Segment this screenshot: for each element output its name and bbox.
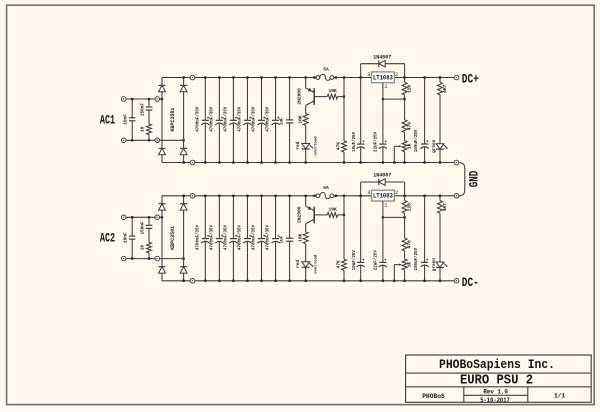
svg-text:100uF/25V: 100uF/25V bbox=[414, 247, 419, 270]
svg-text:4K7: 4K7 bbox=[442, 84, 448, 93]
svg-text:47K: 47K bbox=[335, 260, 341, 269]
potentiometer P2 1K bbox=[404, 251, 406, 259]
wire 47K to bottom bus 1 bbox=[343, 152, 345, 163]
bridge rectifier B2 KBPC3501 left leg diodes bbox=[161, 196, 163, 204]
svg-text:5A: 5A bbox=[323, 185, 329, 191]
svg-text:1uF: 1uF bbox=[280, 235, 284, 243]
resistor R470-2 470 bbox=[404, 217, 406, 238]
svg-text:2N2906: 2N2906 bbox=[297, 206, 303, 223]
wire bottom bus 1 bbox=[162, 162, 190, 164]
svg-text:4700uF/35V: 4700uF/35V bbox=[238, 224, 243, 250]
wire AC2 top bbox=[126, 216, 155, 218]
node AC input terminals AC1 bbox=[121, 97, 126, 102]
svg-text:red: red bbox=[296, 260, 301, 268]
capacitor C21 4700uF/35V bbox=[218, 78, 220, 121]
wire base 1 bbox=[314, 96, 327, 98]
LED D-green-2 green bbox=[436, 262, 444, 267]
wire 4K7 to LED 2 bbox=[439, 213, 441, 262]
junction dots top bus 2 bbox=[182, 195, 184, 197]
svg-text:4K7: 4K7 bbox=[442, 203, 448, 212]
wire pin1 2 bbox=[382, 201, 384, 217]
wire green LED to bottom bus 2 bbox=[439, 268, 441, 281]
capacitor Cadj-1 22uF/25V bbox=[382, 99, 384, 144]
fuse F1 5A bbox=[313, 76, 315, 78]
capacitor C10n-2 10nF bbox=[131, 217, 133, 236]
svg-text:10uF/25V: 10uF/25V bbox=[352, 250, 357, 271]
svg-text:GND: GND bbox=[467, 170, 481, 187]
svg-text:AC1: AC1 bbox=[100, 113, 116, 127]
node bridge input terminals 2 bbox=[155, 215, 160, 220]
svg-text:4700uF/35V: 4700uF/35V bbox=[266, 106, 271, 132]
svg-text:4700uF/35V: 4700uF/35V bbox=[252, 106, 257, 132]
wire 4K7 to LED 1 bbox=[439, 95, 441, 144]
node bridge input terminals 1 bbox=[155, 97, 160, 102]
svg-text:10K: 10K bbox=[328, 206, 337, 212]
svg-text:22uF/25V: 22uF/25V bbox=[373, 131, 378, 152]
wire top bus 1 bbox=[162, 77, 190, 79]
svg-text:1K: 1K bbox=[406, 143, 412, 149]
svg-text:2: 2 bbox=[395, 190, 398, 196]
svg-text:10nF: 10nF bbox=[124, 114, 129, 125]
svg-text:10: 10 bbox=[140, 245, 145, 251]
resistor R10-2 10 bbox=[147, 242, 152, 253]
capacitor C51 4700uF/35V bbox=[261, 78, 263, 121]
svg-text:4700uF/35V: 4700uF/35V bbox=[209, 106, 214, 132]
wire base 2 bbox=[314, 214, 327, 216]
capacitor C150n-2 150nF bbox=[148, 217, 150, 225]
svg-text:1: 1 bbox=[384, 84, 387, 90]
diode D2 1N4007 bbox=[361, 181, 379, 183]
capacitor C10n-1 10nF bbox=[131, 99, 133, 118]
svg-text:120: 120 bbox=[406, 203, 412, 212]
svg-text:1N4007: 1N4007 bbox=[373, 173, 391, 179]
wire collector to LED 2 bbox=[305, 244, 307, 262]
capacitor C31 4700uF/35V bbox=[232, 78, 234, 121]
svg-text:DC-: DC- bbox=[462, 276, 479, 290]
wire LED to bottom bus 1 bbox=[305, 149, 307, 163]
wire pin1 1 bbox=[382, 83, 384, 99]
node GND ports and wire bbox=[454, 160, 459, 165]
resistor R470-1 470 bbox=[404, 99, 406, 120]
node bridge + output port 1 bbox=[190, 75, 195, 80]
svg-text:10: 10 bbox=[140, 126, 145, 132]
svg-text:3: 3 bbox=[367, 72, 370, 78]
fuse F2 5A bbox=[313, 195, 315, 197]
capacitor Cout-2 100uF/25V bbox=[423, 195, 425, 197]
svg-text:5A: 5A bbox=[323, 67, 329, 73]
svg-text:1: 1 bbox=[384, 202, 387, 208]
wire to bridge bottom 2 bbox=[160, 258, 184, 260]
svg-text:DC+: DC+ bbox=[462, 73, 479, 87]
svg-text:KBPC3501: KBPC3501 bbox=[170, 108, 176, 132]
svg-text:4700uF/35V: 4700uF/35V bbox=[252, 224, 257, 250]
svg-text:150nF: 150nF bbox=[140, 103, 145, 117]
junction dots bottom bus 2 bbox=[182, 280, 184, 282]
wire AC1 bottom bbox=[126, 139, 155, 141]
svg-text:4700uF/35V: 4700uF/35V bbox=[195, 224, 200, 250]
svg-text:overload: overload bbox=[314, 136, 319, 156]
svg-text:2N2906: 2N2906 bbox=[297, 88, 303, 105]
title block frame bbox=[406, 355, 592, 402]
wire collector to LED 1 bbox=[305, 126, 307, 144]
svg-text:4700uF/35V: 4700uF/35V bbox=[209, 224, 214, 250]
transistor Q2 2N2906 bbox=[305, 196, 307, 207]
wire to bridge bottom 1 bbox=[160, 139, 184, 141]
node DC- output port bbox=[454, 279, 459, 284]
wire top bus 2 bbox=[162, 195, 190, 197]
svg-text:AC2: AC2 bbox=[100, 232, 115, 246]
svg-text:5-10-2017: 5-10-2017 bbox=[480, 397, 510, 404]
capacitor C22 4700uF/35V bbox=[218, 196, 220, 239]
op-amp U1 LT1083 regulator bbox=[372, 72, 395, 83]
node bridge + output port 2 bbox=[190, 194, 195, 199]
capacitor C150n-1 150nF bbox=[148, 99, 150, 107]
svg-text:PHOBoSapiens Inc.: PHOBoSapiens Inc. bbox=[439, 357, 555, 372]
svg-text:1uF: 1uF bbox=[280, 117, 284, 125]
svg-text:KBPC3501: KBPC3501 bbox=[170, 226, 176, 250]
capacitor C62 4700uF/35V bbox=[275, 196, 277, 239]
wire AC2 bottom bbox=[126, 258, 155, 260]
resistor Rc-1 10K bbox=[303, 114, 308, 126]
resistor R4K7-1 4K7 bbox=[439, 76, 441, 78]
svg-text:overload: overload bbox=[314, 254, 319, 274]
resistor R47K-2 47K bbox=[342, 259, 347, 270]
svg-text:EURO PSU 2: EURO PSU 2 bbox=[460, 374, 533, 389]
wire AC1 top bbox=[126, 98, 155, 100]
LED D-green-1 green bbox=[436, 144, 444, 149]
svg-text:1K: 1K bbox=[406, 262, 412, 268]
node bridge - output port 2 bbox=[190, 279, 195, 284]
svg-text:10nF: 10nF bbox=[124, 232, 129, 243]
svg-text:4700uF/35V: 4700uF/35V bbox=[238, 106, 243, 132]
capacitor C1u-2 1uF bbox=[289, 196, 291, 238]
capacitor C1u-1 1uF bbox=[289, 78, 291, 120]
node AC input terminals AC2 bbox=[121, 215, 126, 220]
wire bottom bus 2 bbox=[162, 280, 190, 282]
LED D-red-2 red overload bbox=[302, 262, 310, 267]
diode D1 1N4007 bbox=[361, 63, 379, 65]
svg-text:470: 470 bbox=[406, 122, 412, 131]
resistor R10-1 10 bbox=[147, 124, 152, 135]
svg-text:LT1083: LT1083 bbox=[373, 74, 393, 81]
capacitor C12 4700uF/35V bbox=[204, 196, 206, 239]
svg-text:Rev 1.0: Rev 1.0 bbox=[483, 388, 508, 395]
bridge rectifier B1 KBPC3501 left leg diodes bbox=[161, 78, 163, 86]
wire LED to bottom bus 2 bbox=[305, 267, 307, 281]
svg-text:10K: 10K bbox=[297, 233, 303, 242]
svg-text:100uF/25V: 100uF/25V bbox=[414, 129, 419, 152]
svg-text:10K: 10K bbox=[328, 88, 337, 94]
resistor Rb-2 10K bbox=[327, 212, 337, 217]
capacitor Cout-1 100uF/25V bbox=[423, 76, 425, 78]
svg-text:1N4007: 1N4007 bbox=[373, 54, 391, 60]
resistor R120-2 120 bbox=[403, 195, 405, 197]
node DC+ output port bbox=[454, 75, 459, 80]
wire to bridge top 1 bbox=[160, 98, 162, 100]
capacitor Cin-2 10uF/25V bbox=[360, 182, 362, 196]
svg-text:470: 470 bbox=[406, 240, 412, 249]
svg-text:LT1083: LT1083 bbox=[373, 193, 393, 200]
capacitor C41 4700uF/35V bbox=[246, 78, 248, 121]
capacitor C42 4700uF/35V bbox=[246, 196, 248, 239]
wire to bridge top 2 bbox=[160, 216, 162, 218]
svg-text:green: green bbox=[432, 258, 437, 272]
svg-text:1/1: 1/1 bbox=[554, 393, 565, 400]
svg-text:4700uF/35V: 4700uF/35V bbox=[224, 106, 229, 132]
LED D-red-1 red overload bbox=[302, 144, 310, 149]
wire green LED to bottom bus 1 bbox=[439, 149, 441, 162]
resistor R47K-1 47K bbox=[342, 141, 347, 152]
wire base resistor to node 1 bbox=[338, 96, 344, 98]
svg-text:3: 3 bbox=[367, 190, 370, 196]
svg-text:150nF: 150nF bbox=[140, 221, 145, 235]
capacitor C11 4700uF/35V bbox=[204, 78, 206, 121]
capacitor Cadj-2 22uF/25V bbox=[382, 217, 384, 262]
svg-text:10uF/25V: 10uF/25V bbox=[352, 131, 357, 152]
svg-text:2: 2 bbox=[395, 72, 398, 78]
node bridge - output port 1 bbox=[190, 160, 195, 165]
transistor Q1 2N2906 bbox=[305, 78, 307, 89]
resistor Rb-1 10K bbox=[327, 94, 337, 99]
svg-text:green: green bbox=[432, 139, 437, 153]
wire node to 47K 2 bbox=[343, 195, 345, 197]
junction dots bottom bus 1 bbox=[182, 161, 184, 163]
svg-text:22uF/25V: 22uF/25V bbox=[373, 250, 378, 271]
resistor R120-1 120 bbox=[403, 76, 405, 78]
bridge rectifier B1 right leg diodes bbox=[183, 78, 185, 86]
svg-text:47K: 47K bbox=[335, 142, 341, 151]
svg-text:red: red bbox=[296, 141, 301, 149]
capacitor C32 4700uF/35V bbox=[232, 196, 234, 239]
potentiometer P1 1K bbox=[404, 133, 406, 141]
svg-text:10K: 10K bbox=[297, 115, 303, 124]
op-amp U2 LT1083 regulator bbox=[372, 190, 395, 201]
resistor Rc-2 10K bbox=[303, 232, 308, 244]
svg-text:4700uF/35V: 4700uF/35V bbox=[266, 224, 271, 250]
wire node to 47K 1 bbox=[343, 76, 345, 78]
bridge rectifier B2 right leg diodes bbox=[183, 196, 185, 204]
capacitor C61 4700uF/35V bbox=[275, 78, 277, 121]
svg-text:PHOBoS: PHOBoS bbox=[422, 393, 445, 400]
resistor R4K7-2 4K7 bbox=[439, 195, 441, 197]
svg-text:4700uF/35V: 4700uF/35V bbox=[195, 106, 200, 132]
wire base resistor to node 2 bbox=[338, 214, 344, 216]
svg-text:4700uF/35V: 4700uF/35V bbox=[224, 224, 229, 250]
junction dots top bus 1 bbox=[182, 76, 184, 78]
capacitor Cin-1 10uF/25V bbox=[360, 64, 362, 78]
capacitor C52 4700uF/35V bbox=[261, 196, 263, 239]
wire 47K to bottom bus 2 bbox=[343, 270, 345, 281]
svg-text:120: 120 bbox=[406, 85, 412, 94]
